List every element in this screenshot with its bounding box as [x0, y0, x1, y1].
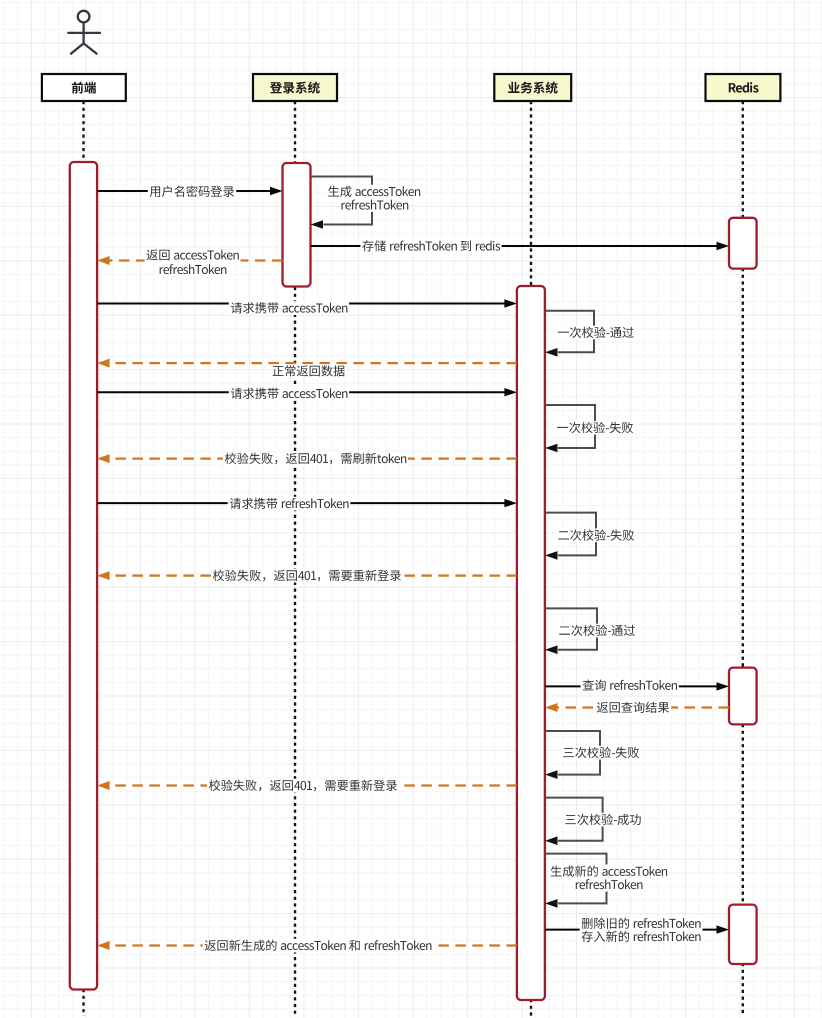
self-message 二次校验-失败 [545, 513, 636, 560]
participant Redis [706, 74, 781, 101]
return 返回 accessToken refreshToken [97, 248, 282, 276]
message 请求携带 refreshToken [97, 497, 517, 511]
return 返回新生成的 accessToken 和 refreshToken [97, 939, 517, 953]
participant 登录系统 [253, 74, 337, 101]
activation 业务系统 [517, 286, 545, 1000]
lifeline Redis [742, 101, 744, 1016]
self-message 生成 accessToken refreshToken [311, 177, 422, 229]
activation Redis 3 [729, 905, 757, 964]
return 返回查询结果 [545, 701, 729, 715]
actor [67, 11, 101, 54]
self-message 一次校验-失败 [545, 405, 635, 452]
message 删除旧的 refreshToken 存入新的 refreshToken [545, 917, 729, 944]
self-message 三次校验-失败 [545, 731, 641, 779]
activation Redis 2 [729, 668, 757, 725]
message 请求携带 accessToken (2) [97, 387, 517, 401]
message 查询 refreshToken [545, 679, 729, 693]
message 用户名密码登录 [97, 185, 282, 199]
message 请求携带 accessToken (1) [97, 299, 517, 315]
participant 前端 [42, 74, 126, 101]
return 正常返回数据 [97, 359, 517, 378]
lifeline 登录系统 [294, 101, 296, 1016]
self-message 生成新的 accessToken refreshToken [545, 854, 669, 908]
return 校验失败，返回401，需要重新登录 (2) [97, 779, 517, 793]
return 校验失败，返回401，需刷新token [97, 452, 517, 466]
return 校验失败，返回401，需要重新登录 (1) [97, 569, 517, 583]
activation 登录系统 [283, 163, 311, 287]
participant 业务系统 [494, 74, 571, 101]
lifeline 业务系统 [530, 101, 532, 1016]
message 存储 refreshToken 到 redis [311, 239, 730, 253]
lifeline 前端 [82, 101, 84, 1016]
activation 前端 [70, 162, 97, 990]
self-message 三次校验-成功 [545, 798, 643, 845]
self-message 二次校验-通过 [545, 608, 637, 654]
activation Redis 1 [729, 218, 757, 269]
self-message 一次校验-通过 [545, 311, 636, 357]
